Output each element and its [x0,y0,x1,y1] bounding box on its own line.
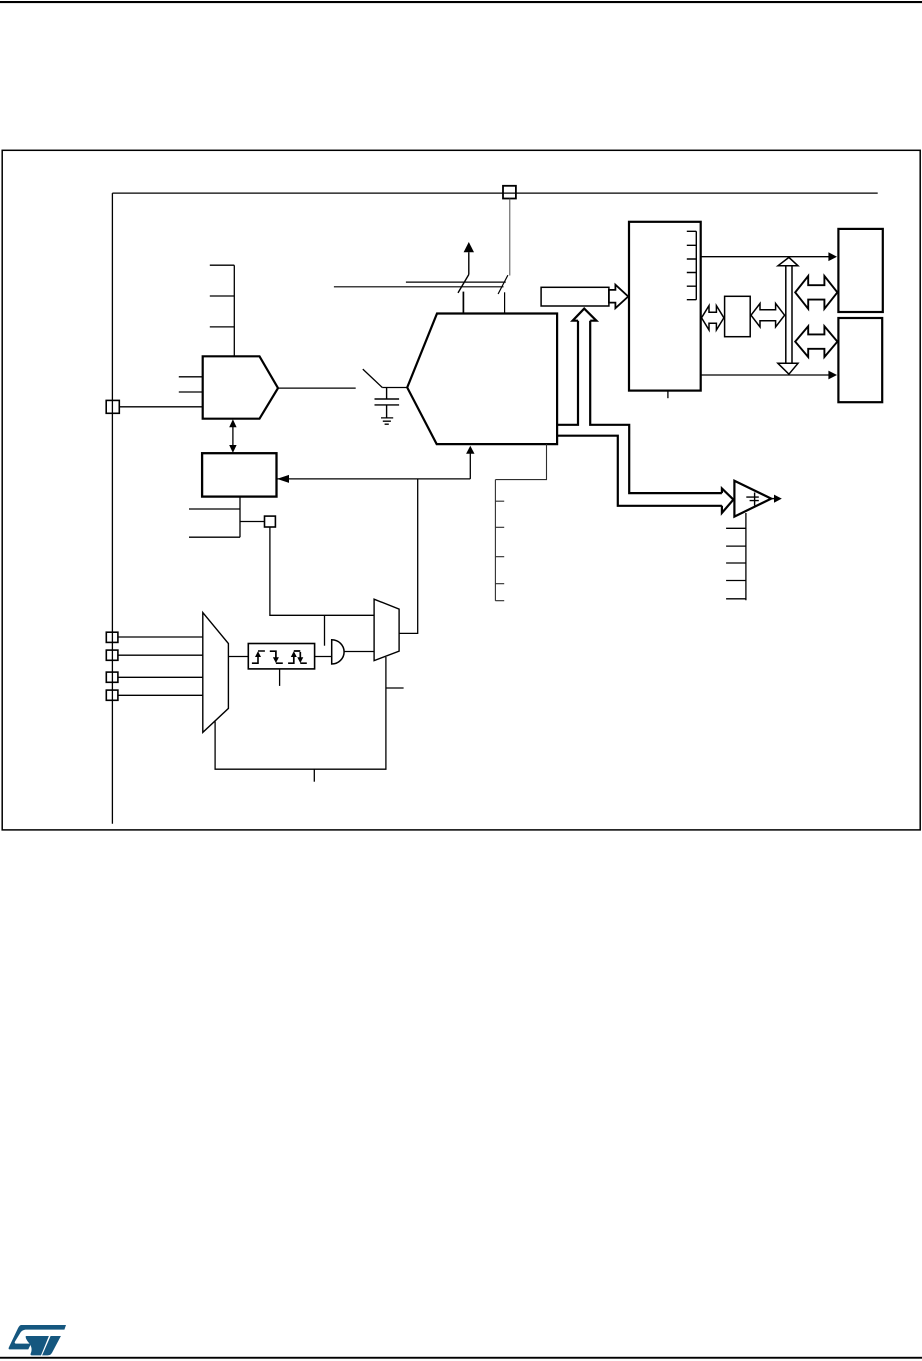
bus arrowhead into watchdog comparator [722,489,734,513]
wire branch to AND gate [324,615,326,645]
slash bus-width marker 2 [498,275,508,294]
wire reference bus line lower [334,286,504,288]
figure frame [2,150,920,830]
wire feedback loop below [215,657,386,769]
ADC interface block (big rect) [629,222,701,391]
wire pad down to trigger mux [270,527,374,615]
wire trigger branch down [399,479,418,634]
wire AIN pad to mux [119,406,202,408]
data register (small rect) [541,287,609,306]
capacitor sampling [375,388,400,418]
register bit comb inside interface [687,231,697,299]
wire reference bus line upper [406,281,506,283]
tick below interface block [667,391,669,399]
wire mux output [278,387,356,389]
wire comparator output [771,498,775,500]
small double arrow interface-bridge [702,306,724,330]
arrowhead down (prescaler) [229,445,236,453]
comb status flags (below converter) [495,444,546,601]
sample switch [363,369,383,387]
CPU block (top right rect) [838,229,882,312]
system bus double arrow (vertical) [786,266,792,364]
pin EXT trigger pad 3 [106,672,118,682]
wire AND to trigger mux [344,651,374,653]
trigger select mux (small trapezoid) [374,599,399,660]
glyph both edges [288,651,307,663]
prescaler block (bold rect) [202,453,276,496]
DMA block (bottom right rect) [838,318,882,402]
wire edge detector to AND [315,656,332,658]
wire up to arrow [468,252,470,274]
edge detector block [248,644,314,669]
AND gate [332,640,344,664]
arrowhead right (DMA) [828,371,837,380]
wire ext2 [118,654,203,656]
wire interface to DMA block [701,374,830,376]
wire mux input stub 1 [179,376,203,378]
arrowhead up [464,242,474,252]
node VDDA rail (top) [112,192,877,194]
small double arrow bridge-bus [751,304,785,327]
pin EXT trigger pad 2 [106,650,118,660]
wire converter stub to bus (right) [504,292,506,313]
wire left rail [111,193,113,824]
wire mux input stub 2 [179,391,203,393]
slash bus-width marker 1 [458,275,469,293]
page bottom rule [0,1357,922,1359]
bus arrowhead into data register [573,309,597,321]
ground [381,418,393,424]
pin trigger pad [265,516,276,527]
bus arrowhead bottom [778,363,798,374]
pin EXT trigger pad 1 [106,632,118,642]
hollow double arrow to CPU [795,276,837,309]
wire trigger line [277,478,470,480]
node channel input comb [210,265,235,356]
arrowhead up (mux) [229,419,236,427]
bus arrowhead top [778,257,798,265]
wire trigger up into converter [469,454,471,479]
tick on loop [313,769,315,782]
pin EXT trigger pad 4 [106,690,118,700]
tick right of loop riser [386,687,403,689]
wire ext3 [118,676,203,678]
comb watchdog flags [726,513,746,600]
double arrow mux-prescaler [232,427,234,447]
arrowhead right (CPU) [828,252,837,261]
ST logo [9,1325,66,1355]
analog mux (pentagon) [203,356,278,418]
wire pad stub [240,521,265,523]
hysteresis glyph [746,493,759,506]
wire switch to converter [382,387,407,389]
wire interface to CPU block [701,256,830,258]
data bus channel (converter up to data register) [557,321,722,506]
glyph rising edge [252,651,265,663]
analog watchdog comparator (triangle) [734,481,771,517]
wire below prescaler [189,497,240,538]
SAR A/D converter (funnel polygon) [407,314,557,445]
arrowhead into converter bottom [466,446,474,454]
wire ext1 [118,636,203,638]
arrowhead into prescaler [277,475,289,483]
bridge block (small middle rect) [725,296,751,336]
block arrow register to interface [609,285,628,309]
wire converter stub to bus (left) [462,292,464,314]
hollow double arrow to DMA [795,326,837,357]
wire from VDDA pad down [509,199,511,276]
glyph falling edge [270,651,283,663]
wire mux to edge detector [228,656,248,658]
arrowhead comparator output [774,495,782,503]
tick below edge detector [279,669,281,686]
trigger source mux (big trapezoid) [203,613,229,733]
pin AIN pad [106,400,119,413]
page top rule [0,1,922,3]
pin VDDA pad [503,186,516,199]
wire ext4 [118,694,203,696]
